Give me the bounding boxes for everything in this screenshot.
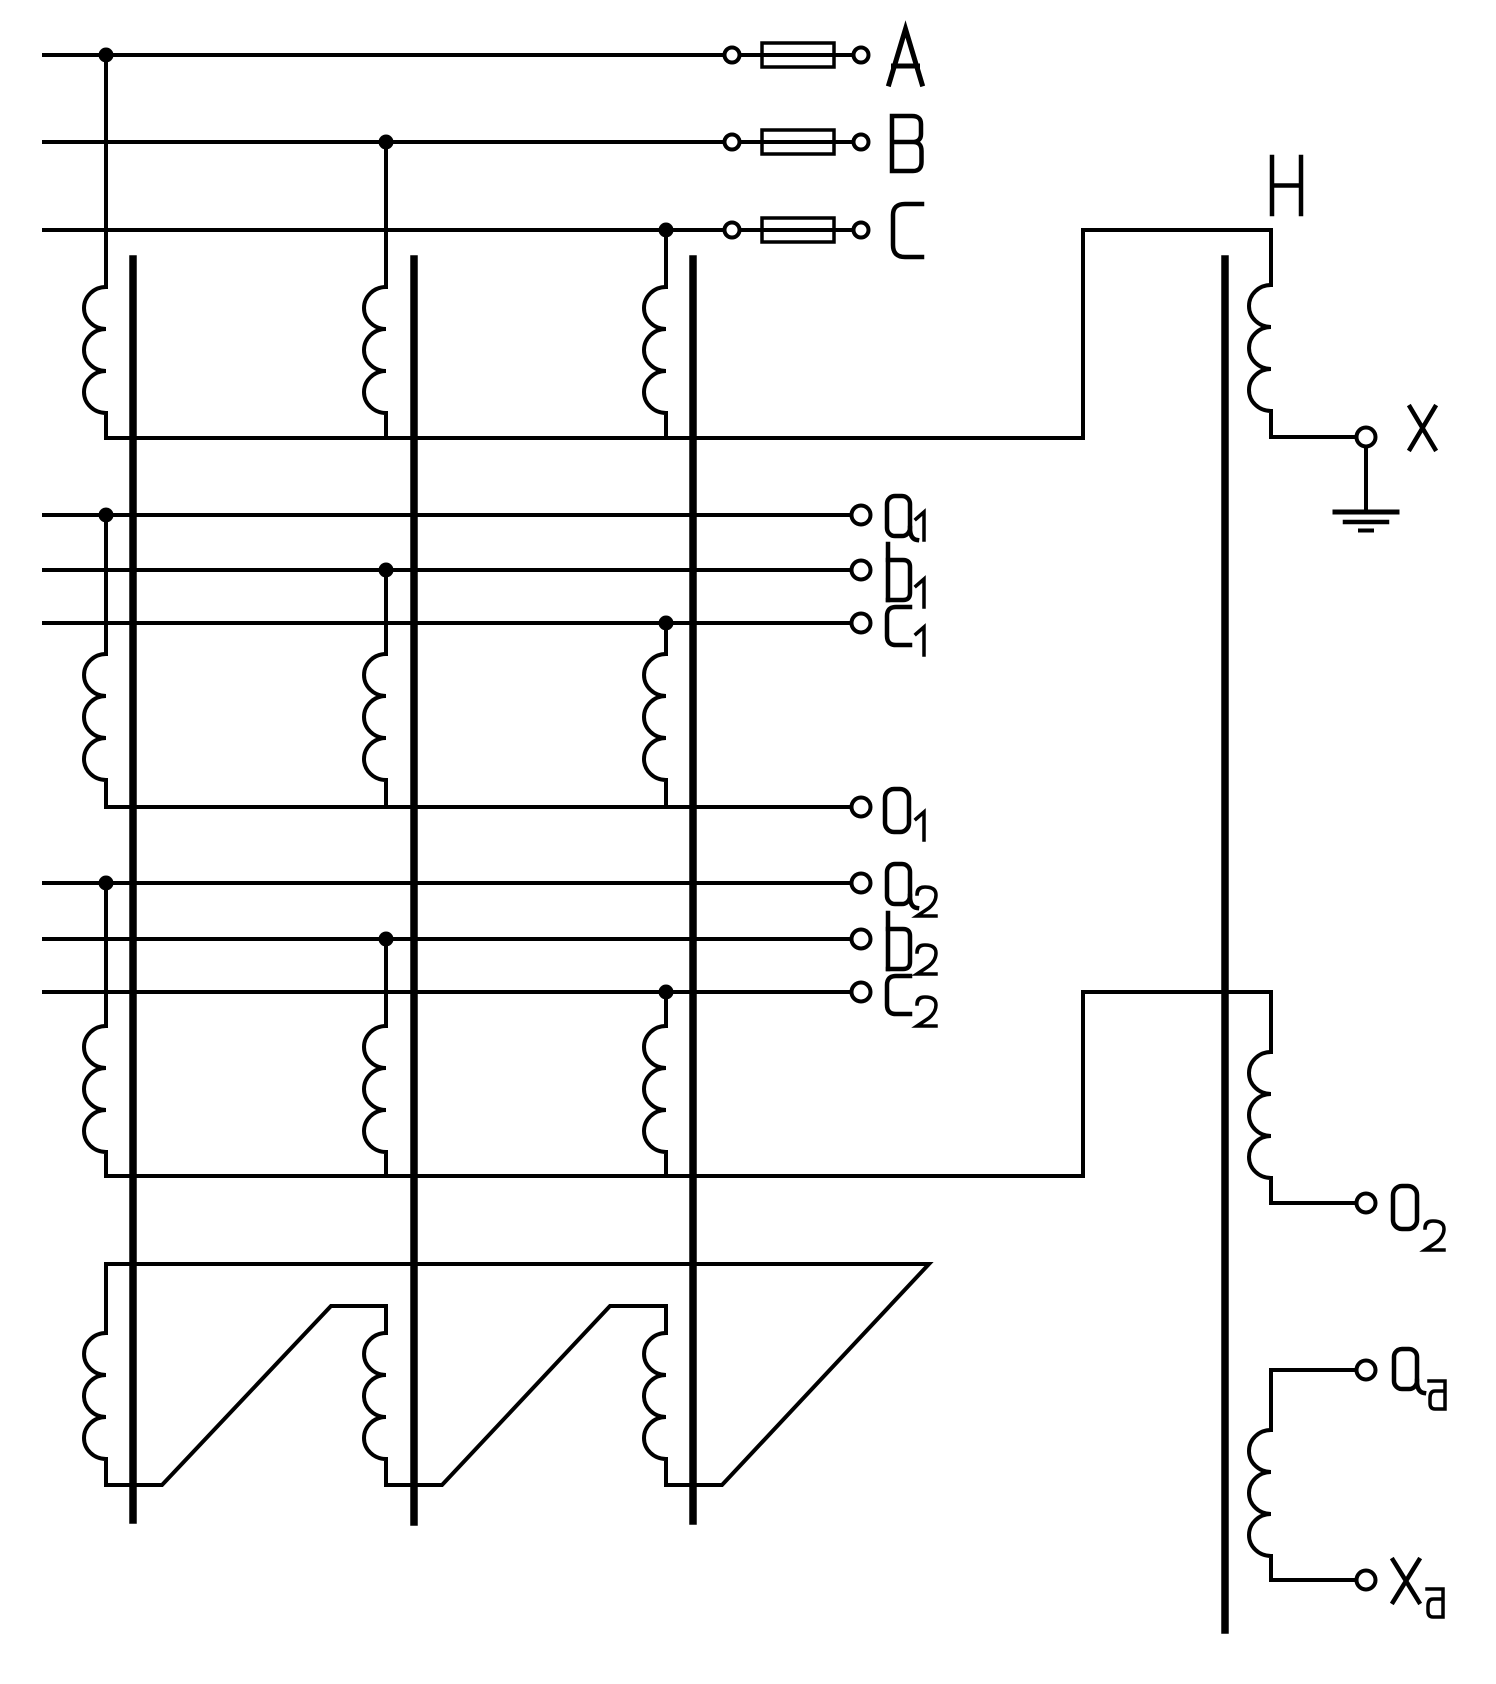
wire phase line C bbox=[44, 228, 723, 232]
wire secondary 2 neutral bus to O2 winding bbox=[106, 992, 1271, 1176]
label b2 bbox=[888, 913, 936, 974]
label O2 bbox=[1393, 1186, 1444, 1250]
label B bbox=[892, 116, 922, 171]
node b1 junction dot bbox=[379, 563, 394, 578]
wire secondary line b2 bbox=[44, 937, 849, 941]
node phase A junction dot bbox=[99, 48, 114, 63]
label a-aux bbox=[1394, 1349, 1445, 1409]
terminal A circle bbox=[854, 48, 869, 63]
fuse FU-B body bbox=[762, 130, 834, 154]
terminal X circle bbox=[1357, 428, 1376, 447]
node a1 junction dot bbox=[99, 508, 114, 523]
terminal X-aux circle bbox=[1357, 1571, 1376, 1590]
terminal O1 circle bbox=[852, 798, 871, 817]
node phase B junction dot bbox=[379, 135, 394, 150]
wire secondary line a1 bbox=[44, 513, 849, 517]
secondary winding 2 phase a (wire + coil) bbox=[84, 883, 106, 1176]
terminal c1 circle bbox=[852, 614, 871, 633]
wire secondary line c1 bbox=[44, 621, 849, 625]
core limb 1 bbox=[129, 259, 137, 1520]
wire secondary line b1 bbox=[44, 568, 849, 572]
label a2 bbox=[887, 864, 936, 916]
label c1 bbox=[887, 607, 924, 655]
terminal a1 circle bbox=[852, 506, 871, 525]
terminal B circle bbox=[854, 135, 869, 150]
label b1 bbox=[888, 544, 924, 607]
wire secondary 1 neutral bus O1 bbox=[106, 805, 849, 809]
wire through fuse A bbox=[741, 53, 852, 57]
label X-aux bbox=[1393, 1560, 1443, 1617]
terminal C circle bbox=[854, 223, 869, 238]
wire phase line A bbox=[44, 53, 723, 57]
primary winding phase B (wire + coil) bbox=[364, 142, 386, 438]
fuse FU-A left terminal bbox=[725, 48, 740, 63]
secondary winding 2 phase c (wire + coil) bbox=[644, 992, 666, 1176]
core limb 4 (auxiliary transformer) bbox=[1221, 259, 1229, 1630]
node c1 junction dot bbox=[659, 616, 674, 631]
terminal c2 circle bbox=[852, 983, 871, 1002]
primary winding phase A (wire + coil) bbox=[84, 55, 106, 438]
label A bbox=[889, 29, 922, 84]
label a1 bbox=[887, 496, 924, 540]
fuse FU-C body bbox=[762, 218, 834, 242]
label O1 bbox=[885, 789, 924, 840]
node c2 junction dot bbox=[659, 985, 674, 1000]
secondary winding 2 phase b (wire + coil) bbox=[364, 939, 386, 1176]
tertiary delta winding (three coils with diagonals) bbox=[84, 1264, 929, 1485]
fuse FU-B left terminal bbox=[725, 135, 740, 150]
wire phase line B bbox=[44, 140, 723, 144]
secondary winding 1 phase b (wire + coil) bbox=[364, 570, 386, 807]
auxiliary winding on limb 4 (coil) bbox=[1249, 1370, 1355, 1580]
wire secondary line a2 bbox=[44, 881, 849, 885]
ground symbol at X bbox=[1335, 447, 1397, 531]
primary winding phase C (wire + coil) bbox=[644, 230, 666, 438]
winding O2 on limb 4 (coil) bbox=[1249, 992, 1355, 1203]
terminal a2 circle bbox=[852, 874, 871, 893]
secondary winding 1 phase c (wire + coil) bbox=[644, 623, 666, 807]
core limb 2 bbox=[410, 259, 418, 1522]
wire secondary line c2 bbox=[44, 990, 849, 994]
label H bbox=[1272, 157, 1301, 214]
label X bbox=[1410, 407, 1435, 449]
wire through fuse C bbox=[741, 228, 852, 232]
terminal a-aux circle bbox=[1357, 1361, 1376, 1380]
label C bbox=[893, 204, 922, 257]
wire primary neutral bus to H winding bbox=[106, 230, 1271, 438]
wire through fuse B bbox=[741, 140, 852, 144]
secondary winding 1 phase a (wire + coil) bbox=[84, 515, 106, 807]
terminal b1 circle bbox=[852, 561, 871, 580]
terminal b2 circle bbox=[852, 930, 871, 949]
fuse FU-C left terminal bbox=[725, 223, 740, 238]
label c2 bbox=[887, 976, 936, 1026]
fuse FU-A body bbox=[762, 43, 834, 67]
terminal O2 circle bbox=[1357, 1194, 1376, 1213]
node phase C junction dot bbox=[659, 223, 674, 238]
winding H on limb 4 (coil) bbox=[1249, 230, 1355, 437]
node a2 junction dot bbox=[99, 876, 114, 891]
core limb 3 bbox=[689, 259, 697, 1521]
node b2 junction dot bbox=[379, 932, 394, 947]
